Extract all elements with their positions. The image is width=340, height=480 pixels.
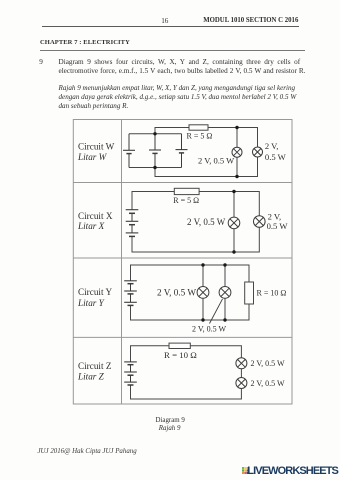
circuit Y junction: branch 1 bottom node <box>201 318 204 321</box>
circuit Y junction: branch 2 top node <box>223 263 226 266</box>
circuit W wire: cell bottom sub-rail <box>129 167 182 169</box>
circuit X bulb L2 label <box>267 211 289 231</box>
circuit Y cell 1 <box>124 281 137 284</box>
circuit W resistor R <box>189 125 208 130</box>
circuit X bulb L1 <box>228 217 240 229</box>
circuit W wire: bulb branch <box>236 128 238 148</box>
circuit Y wire: bulb branch 1 <box>202 265 204 287</box>
svg-text:R = 5 Ω: R = 5 Ω <box>173 196 199 205</box>
circuit X bulb L2 <box>253 216 265 228</box>
question text line 1 <box>59 58 301 66</box>
svg-text:Litar Z: Litar Z <box>77 371 105 381</box>
svg-text:R = 5 Ω: R = 5 Ω <box>187 131 213 140</box>
circuit Z resistor R <box>169 343 190 348</box>
circuit W junction: bulb branch bottom node <box>235 175 238 178</box>
circuit Y bulb L2 leader line <box>210 299 223 324</box>
svg-text:2 V,: 2 V, <box>268 211 282 221</box>
label Circuit Z <box>77 361 112 382</box>
chapter heading <box>40 39 130 46</box>
circuit W wire: top rail right of resistor <box>208 128 258 148</box>
circuit W wire: cell top sub-rail <box>129 133 182 135</box>
circuit W cell 2 <box>149 134 161 168</box>
circuit W bulb L1 <box>232 147 242 157</box>
circuit X junction: bulb branch top node <box>232 190 235 193</box>
circuit W wire: right side lower <box>155 157 258 177</box>
svg-text:R = 10 Ω: R = 10 Ω <box>164 350 197 360</box>
svg-text:Circuit X: Circuit X <box>78 211 113 221</box>
label Circuit Y <box>77 287 112 308</box>
circuit X wire: bulb branch <box>233 192 235 218</box>
label Circuit W <box>77 142 115 162</box>
circuit Y cell 2 <box>124 284 137 294</box>
circuit Z wire: top rail right of resistor <box>190 346 241 358</box>
circuit Y wire: bulb branch 2 <box>224 265 226 287</box>
circuit X cell 1 <box>126 210 139 214</box>
circuit X resistor R <box>174 188 199 194</box>
circuit Z wire: between bulbs <box>240 369 242 378</box>
svg-text:2 V, 0.5 W: 2 V, 0.5 W <box>192 325 226 334</box>
circuit Y resistor R (vertical) <box>245 282 254 304</box>
circuit X cell 2 <box>126 213 139 224</box>
header page number <box>161 17 168 25</box>
svg-text:2 V, 0.5 W: 2 V, 0.5 W <box>157 287 196 297</box>
malay text line 3 <box>59 102 129 110</box>
circuit Z cell 3 <box>124 375 137 385</box>
question number <box>39 58 43 66</box>
footer copyright <box>38 448 137 455</box>
circuit Z bulb L2 <box>236 378 247 389</box>
circuit X junction: bulb branch bottom node <box>232 250 235 253</box>
question text line 2 <box>59 67 306 75</box>
circuit Z wire: bottom rail <box>131 385 242 399</box>
malay text line 1 <box>59 84 296 92</box>
caption Diagram 9 <box>156 417 185 424</box>
svg-text:Circuit Y: Circuit Y <box>78 287 112 297</box>
circuit W cell 3 <box>176 134 188 168</box>
svg-text:Circuit W: Circuit W <box>78 142 115 152</box>
circuit Y junction: branch 2 bottom node <box>223 318 226 321</box>
svg-text:2 V, 0.5 W: 2 V, 0.5 W <box>251 379 285 388</box>
circuit Z cell 1 <box>124 362 137 365</box>
diagram table frame <box>73 120 292 405</box>
svg-text:Litar W: Litar W <box>77 152 108 162</box>
svg-text:2 V,: 2 V, <box>265 141 279 151</box>
label Circuit X <box>77 211 113 231</box>
circuit X wire: bottom rail <box>132 228 259 253</box>
circuit X wire: top rail <box>132 192 174 210</box>
circuit Y cell 3 <box>124 294 137 306</box>
svg-text:Litar Y: Litar Y <box>77 298 105 308</box>
svg-text:0.5 W: 0.5 W <box>265 152 287 162</box>
circuit W cell 1 <box>123 134 135 168</box>
circuit W bulb L2 <box>253 147 263 157</box>
circuit Y wire: top rail <box>131 265 250 282</box>
liveworksheets logo icon <box>242 467 249 474</box>
circuit Y bulb L1 <box>197 287 209 299</box>
svg-text:Circuit Z: Circuit Z <box>78 361 112 371</box>
svg-text:Litar X: Litar X <box>77 221 105 231</box>
circuit W bulb L2 label <box>265 141 287 162</box>
svg-text:R = 10 Ω: R = 10 Ω <box>257 289 287 298</box>
svg-text:2 V, 0.5 W: 2 V, 0.5 W <box>198 156 234 166</box>
circuit Z wire: top rail <box>131 346 170 362</box>
svg-text:0.5 W: 0.5 W <box>267 221 289 231</box>
circuit X wire: top rail right of resistor <box>199 192 259 216</box>
circuit W junction: bulb branch top node <box>235 126 238 129</box>
svg-text:2 V, 0.5 W: 2 V, 0.5 W <box>187 217 226 227</box>
circuit W wire: top rail <box>155 128 189 134</box>
liveworksheets logo text <box>247 465 338 477</box>
circuit X cell 3 <box>126 225 139 237</box>
caption Rajah 9 <box>159 425 181 432</box>
circuit Z cell 2 <box>124 365 137 376</box>
circuit W junction: cells top node <box>153 132 156 135</box>
header rule <box>42 26 299 27</box>
svg-text:2 V, 0.5 W: 2 V, 0.5 W <box>251 359 285 368</box>
circuit Y bulb L2 <box>219 287 231 299</box>
circuit Y wire: bottom rail <box>131 304 250 320</box>
chapter rule <box>40 50 305 51</box>
circuit W junction: cells bottom node <box>153 166 156 169</box>
circuit Y junction: branch 1 top node <box>201 263 204 266</box>
header title <box>203 17 298 24</box>
circuit Z bulb L1 <box>236 358 247 369</box>
malay text line 2 <box>59 93 297 101</box>
